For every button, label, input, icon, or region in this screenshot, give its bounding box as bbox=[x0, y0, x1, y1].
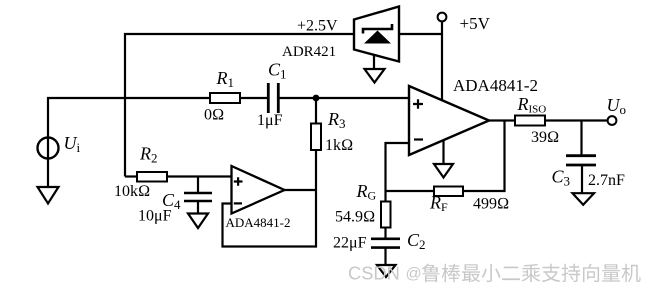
wire +2.5V top rail from left vertical to ADR421 bbox=[125, 34, 354, 177]
wire +5V vertical to op-amp U1 supply bbox=[441, 21, 443, 101]
capacitor C2 bbox=[371, 239, 400, 248]
minus marker U1 bbox=[414, 138, 423, 140]
svg-text:+5V: +5V bbox=[460, 14, 491, 33]
ground below U1 bbox=[434, 164, 453, 178]
ground below C2 bbox=[377, 265, 396, 277]
wire C3 stub from output row bbox=[580, 121, 582, 155]
wire C2 to ground bbox=[384, 248, 386, 265]
svg-text:22μF: 22μF bbox=[333, 235, 367, 252]
svg-text:1kΩ: 1kΩ bbox=[325, 137, 353, 154]
svg-text:54.9Ω: 54.9Ω bbox=[335, 209, 375, 226]
wire R2 row bbox=[125, 175, 137, 177]
wire ADR421 to +5V rail bbox=[399, 33, 442, 35]
capacitor C1 bbox=[268, 83, 278, 113]
svg-text:ADA4841-2: ADA4841-2 bbox=[226, 215, 291, 230]
wire C1 to op-amp U1 + input bbox=[280, 97, 410, 99]
op-amp U2 ADA4841-2 buffer bbox=[232, 166, 285, 214]
svg-text:10kΩ: 10kΩ bbox=[114, 183, 150, 200]
watermark CJK username bbox=[422, 264, 641, 283]
svg-text:ADA4841-2: ADA4841-2 bbox=[453, 76, 538, 95]
wire feedback vertical from output bbox=[463, 121, 505, 192]
svg-text:2.7nF: 2.7nF bbox=[588, 172, 625, 189]
wire op-amp U2 output bbox=[284, 189, 316, 191]
plus marker U1 bbox=[413, 99, 423, 109]
wire U1 minus input to feedback bbox=[386, 143, 410, 191]
wire main signal row from Ui up and right to R1 bbox=[48, 98, 210, 187]
svg-text:499Ω: 499Ω bbox=[473, 196, 509, 213]
svg-text:+2.5V: +2.5V bbox=[297, 18, 338, 35]
ground below ADR421 bbox=[365, 69, 385, 83]
wire RG to C2 bbox=[384, 228, 386, 239]
wire R3 down and feedback loop of op-amp U2 bbox=[223, 150, 317, 247]
svg-text:1μF: 1μF bbox=[257, 112, 283, 129]
capacitor C3 bbox=[566, 156, 596, 165]
svg-text:@: @ bbox=[406, 266, 422, 283]
voltage reference ADR421 bbox=[354, 7, 399, 62]
plus marker U2 bbox=[234, 177, 243, 186]
wire RG stub bbox=[384, 191, 386, 202]
ground below C3 bbox=[573, 193, 595, 205]
resistor RISO bbox=[515, 116, 545, 126]
svg-text:CSDN: CSDN bbox=[348, 263, 400, 284]
capacitor C4 bbox=[184, 193, 212, 201]
source Ui bbox=[38, 138, 59, 159]
node junction dot bbox=[313, 95, 320, 102]
wire U1 output to RISO bbox=[489, 119, 515, 121]
wire C4 to ground bbox=[197, 201, 199, 214]
svg-text:ADR421: ADR421 bbox=[282, 44, 336, 60]
wire node to R3 bbox=[315, 98, 317, 124]
wire R1 to C1 bbox=[240, 97, 267, 99]
resistor R1 bbox=[210, 93, 240, 103]
wire U1 ground stub bbox=[442, 141, 444, 164]
zener diode inside ADR421 bbox=[363, 24, 392, 34]
terminal +5V bbox=[438, 13, 447, 22]
terminal Uo bbox=[608, 116, 617, 125]
wire RISO to output terminal bbox=[545, 119, 608, 121]
wire ADR421 ground stub bbox=[373, 56, 375, 70]
wire C4 stub bbox=[197, 177, 199, 193]
svg-text:10μF: 10μF bbox=[138, 208, 172, 225]
svg-text:39Ω: 39Ω bbox=[531, 129, 559, 146]
ground below Ui bbox=[38, 187, 59, 204]
resistor R2 bbox=[137, 172, 167, 182]
op-amp U1 ADA4841-2 main bbox=[409, 86, 489, 155]
wire R2 to op-amp U2 + input bbox=[167, 175, 232, 177]
ground below C4 bbox=[188, 214, 208, 229]
svg-text:0Ω: 0Ω bbox=[204, 107, 224, 124]
resistor RG bbox=[381, 202, 391, 228]
wire C3 to ground bbox=[581, 165, 583, 193]
resistor R3 bbox=[311, 124, 321, 151]
minus marker U2 bbox=[234, 202, 242, 204]
resistor RF bbox=[434, 187, 463, 197]
wire RF to RG junction bbox=[386, 190, 435, 192]
